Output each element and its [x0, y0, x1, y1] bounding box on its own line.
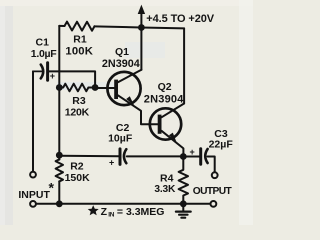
Q2 emitter arrowhead	[169, 133, 177, 143]
svg-text:3.3K: 3.3K	[154, 184, 176, 195]
transistor Q1	[107, 72, 140, 105]
svg-text:Q1: Q1	[115, 46, 129, 58]
svg-text:*: *	[49, 180, 55, 196]
terminal input top	[30, 172, 36, 178]
ground	[182, 204, 184, 211]
svg-text:2N3904: 2N3904	[102, 58, 140, 70]
resistor R2	[56, 159, 63, 181]
capacitor C2	[119, 149, 122, 165]
svg-text:Q2: Q2	[158, 81, 172, 93]
Q1 base bar	[114, 80, 118, 99]
wire C2 to output node	[127, 155, 184, 157]
svg-text:+: +	[190, 147, 195, 157]
svg-text:+4.5 TO +20V: +4.5 TO +20V	[146, 13, 214, 25]
wire supply stem	[140, 12, 142, 28]
svg-text:R4: R4	[160, 172, 174, 184]
svg-text:INPUT: INPUT	[18, 189, 50, 201]
wire top rail left segment	[59, 25, 64, 27]
terminal output bottom	[211, 201, 217, 207]
wire left vertical rail	[58, 26, 60, 160]
svg-text:150K: 150K	[65, 172, 91, 184]
svg-text:R1: R1	[73, 33, 87, 45]
Q1 emitter arrowhead	[126, 96, 134, 105]
wire C3 to output terminal	[208, 157, 215, 173]
wire top rail right segment	[95, 26, 185, 28]
wire left vertical below R2	[58, 181, 60, 204]
svg-text:120K: 120K	[65, 107, 90, 119]
wire C1 to base node	[48, 71, 96, 87]
supply arrowhead	[138, 5, 145, 14]
capacitor C3	[199, 149, 202, 165]
wire right vertical (Q2 collector to rail)	[183, 28, 185, 103]
svg-text:+: +	[109, 157, 114, 167]
junction dot ground	[180, 200, 187, 207]
resistor R1	[65, 22, 95, 31]
junction dot bottom left	[56, 200, 63, 207]
svg-text:= 3.3MEG: = 3.3MEG	[117, 206, 165, 218]
svg-text:10µF: 10µF	[108, 133, 133, 145]
terminal input bottom	[30, 201, 36, 207]
terminal output top	[212, 172, 218, 178]
svg-text:R3: R3	[72, 95, 86, 107]
top edge lighter	[0, 0, 253, 6]
svg-text:+: +	[50, 71, 55, 81]
junction dot output node	[180, 153, 187, 160]
svg-text:22µF: 22µF	[209, 138, 234, 150]
svg-text:C1: C1	[36, 36, 50, 48]
resistor R4	[179, 157, 188, 204]
svg-text:100K: 100K	[65, 45, 93, 57]
junction dot R3 left	[56, 84, 63, 91]
svg-text:IN: IN	[108, 212, 115, 219]
wire C2 line left	[59, 155, 118, 158]
capacitor C1	[33, 70, 42, 72]
Q2 base bar	[158, 115, 162, 134]
svg-text:Z: Z	[101, 206, 108, 218]
junction dot rail/supply	[138, 24, 145, 31]
resistor R3	[59, 84, 94, 92]
asterisk footnote	[88, 205, 99, 215]
svg-text:R2: R2	[70, 160, 84, 172]
left page-edge band	[0, 0, 13, 225]
wire output node to C3	[183, 156, 199, 158]
wire input vertical	[32, 71, 34, 171]
svg-text:1.0µF: 1.0µF	[31, 48, 57, 60]
junction dot R3 right / Q1 base	[92, 84, 99, 91]
transistor Q2	[150, 108, 181, 139]
wire bottom line	[36, 203, 210, 205]
faint scan tint patches	[57, 82, 117, 90]
svg-text:2N3904: 2N3904	[144, 93, 184, 105]
svg-text:OUTPUT: OUTPUT	[193, 186, 233, 197]
paper background	[0, 0, 253, 225]
junction dot R2 top	[56, 152, 63, 159]
wire Q1 base	[95, 87, 114, 89]
